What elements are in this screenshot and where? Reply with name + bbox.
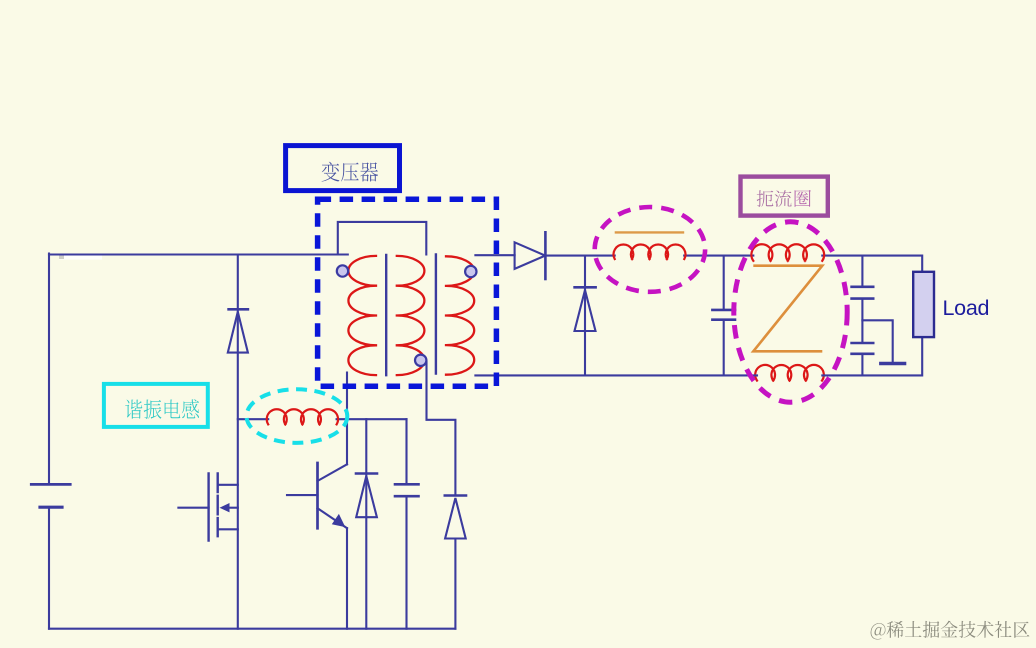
inductor L1 resonant coil bbox=[267, 409, 338, 424]
mosfet Q1 channel (dashed) bbox=[216, 474, 218, 537]
mosfet Q1 source tab bbox=[218, 528, 238, 530]
capacitor C3 (x=862.4 upper) bbox=[861, 256, 863, 343]
battery B1 bbox=[31, 483, 70, 486]
wire secondary bottom rail bbox=[475, 374, 921, 376]
transistor Q2 base bar bbox=[316, 463, 319, 528]
orange bar above L2 bbox=[615, 231, 685, 233]
capacitor C2 branch (x=723.7) bbox=[723, 256, 725, 376]
label text 扼流圈 bbox=[757, 190, 792, 207]
transistor Q2 base wire bbox=[287, 494, 318, 496]
watermark bbox=[871, 621, 1030, 640]
inductor L2 output filter coil bbox=[614, 245, 686, 259]
label text 谐振电感 bbox=[125, 399, 199, 418]
wire secondary top rail bbox=[475, 254, 514, 256]
transformer T1 dashed selection box bbox=[318, 199, 497, 386]
wire BJT emitter down bbox=[346, 528, 348, 629]
resonant inductor dashed ellipse bbox=[247, 389, 348, 443]
mosfet Q1 gate wire bbox=[178, 507, 208, 509]
label text 变压器 bbox=[322, 162, 378, 182]
wire ground branch bbox=[862, 320, 892, 362]
diode D3 freewheel (x=585) bbox=[584, 256, 586, 376]
mosfet Q1 body arrow line bbox=[226, 507, 238, 509]
wire transformer-left vertical to BJT collector bbox=[346, 373, 348, 465]
transistor Q2 emitter diagonal bbox=[318, 508, 348, 528]
choke dashed ellipse bbox=[734, 222, 847, 402]
wire load stubs bbox=[921, 256, 923, 376]
wire resonant branch (y=419.6) bbox=[238, 418, 407, 420]
transformer T1 core line 2 bbox=[435, 255, 437, 374]
label box transformer bbox=[286, 146, 400, 191]
capacitor C4 (x=862.4 lower) bbox=[861, 354, 863, 376]
wire left vertical upper bbox=[48, 254, 50, 485]
wire left vertical lower bbox=[48, 507, 50, 629]
wire primary top loop bbox=[338, 222, 427, 255]
watermark residue patch top-left bbox=[59, 255, 102, 260]
transistor Q2 BJT collector diagonal bbox=[318, 464, 348, 481]
transformer T1 right winding bbox=[446, 256, 474, 374]
capacitor C1 branch (x=406.5) bbox=[405, 419, 407, 629]
inductor L3 choke top coil bbox=[751, 244, 824, 261]
transformer T1 dot primary bbox=[337, 265, 348, 276]
mosfet Q1 arrow head bbox=[220, 503, 230, 512]
diode D4 (x=455.4) bbox=[445, 494, 466, 497]
transformer T1 dot middle bbox=[415, 355, 426, 366]
mosfet Q1 gate plate bbox=[207, 474, 209, 541]
diode D5 (series, pointing right) bbox=[515, 242, 546, 269]
transformer T1 primary winding bbox=[348, 256, 376, 375]
mosfet Q1 drain tab bbox=[218, 484, 238, 486]
wire second vertical (x=237.8) bbox=[237, 255, 239, 629]
diode D2 branch (x=366.3) bbox=[365, 419, 367, 629]
diode D1 (on x=237.8, pointing up) bbox=[229, 308, 248, 311]
wire top rail left bbox=[49, 253, 348, 255]
wire bottom rail bbox=[49, 628, 455, 630]
label box choke bbox=[741, 177, 828, 216]
wire middle-winding bottom jog bbox=[427, 362, 456, 496]
output inductor dashed ellipse bbox=[595, 207, 705, 292]
transistor Q2 emitter arrow head bbox=[332, 514, 346, 527]
label box resonant inductor bbox=[104, 384, 208, 427]
transformer T1 middle winding bbox=[397, 256, 425, 375]
ground GND bbox=[881, 362, 905, 365]
transformer T1 dot secondary bbox=[465, 266, 476, 277]
transformer T1 core line 1 bbox=[385, 255, 387, 375]
wire output top rail bbox=[545, 255, 921, 257]
load R1 body bbox=[913, 272, 934, 337]
inductor L3 choke bottom coil bbox=[755, 365, 824, 381]
svg-text:Load: Load bbox=[943, 296, 990, 320]
orange Z symbol in choke bbox=[753, 266, 822, 352]
